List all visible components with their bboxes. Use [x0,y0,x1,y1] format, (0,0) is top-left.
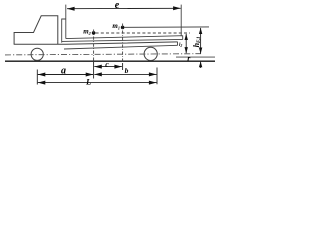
platform deck bottom line [62,39,183,41]
dimension hF1 line (m1 height above axle) [200,28,202,54]
dimension a line [38,74,93,76]
front wheel [31,48,43,60]
a left arrow [38,73,46,77]
ground upper right line [176,56,215,58]
headboard front panel [62,19,66,43]
tick front axle x37 [36,70,38,85]
b left arrow [94,72,102,76]
svg-text:c: c [105,60,109,69]
node m2 dot [92,31,96,35]
m1 vertical dash-dot line [122,24,124,64]
svg-text:e: e [115,0,120,11]
rear wheel [144,47,157,60]
hF1 top arrow [199,28,202,34]
node m1 dot [121,26,125,30]
axle center dash-dot line [5,54,201,55]
svg-text:a: a [61,66,66,77]
L left arrow [38,81,46,85]
b right arrow [149,72,157,76]
dimension c line [94,66,122,68]
h2 top arrow [185,34,188,40]
truck cab outline [14,16,58,44]
m2 height dashed line [96,32,190,34]
svg-text:m2: m2 [83,28,91,36]
platform deck top line [66,36,183,39]
dimension e left arrow [67,7,75,11]
frame rail right end cap [177,42,179,46]
c right arrow [114,65,122,69]
dimension L line [38,82,157,84]
L right arrow [149,81,157,85]
tick rear x157 [156,68,158,85]
frame rail bottom line [64,45,178,49]
platform deck right end cap [182,36,184,40]
m2 vertical dash-dot line [93,30,95,63]
dimension h2 line (m2 height above axle) [185,34,187,53]
ground line [5,60,215,62]
c left arrow [94,65,102,69]
svg-text:b: b [125,66,129,75]
dimension e extension line right [180,5,182,37]
chassis bottom line under cab [14,42,178,44]
svg-text:L: L [85,77,91,87]
dimension b line [94,73,156,75]
h2 bottom arrow [185,47,188,53]
dimension e line [67,7,181,9]
dimension e extension line left [65,5,67,39]
wheel radius r below-ground arrow [200,62,202,68]
svg-text:l2: l2 [179,43,182,48]
svg-text:m1: m1 [112,22,120,30]
a right arrow [86,73,94,77]
m1 height solid line [124,26,209,28]
hF1 bottom arrow [199,48,202,54]
svg-text:hF,1: hF,1 [192,36,202,47]
dimension e right arrow [173,6,181,10]
